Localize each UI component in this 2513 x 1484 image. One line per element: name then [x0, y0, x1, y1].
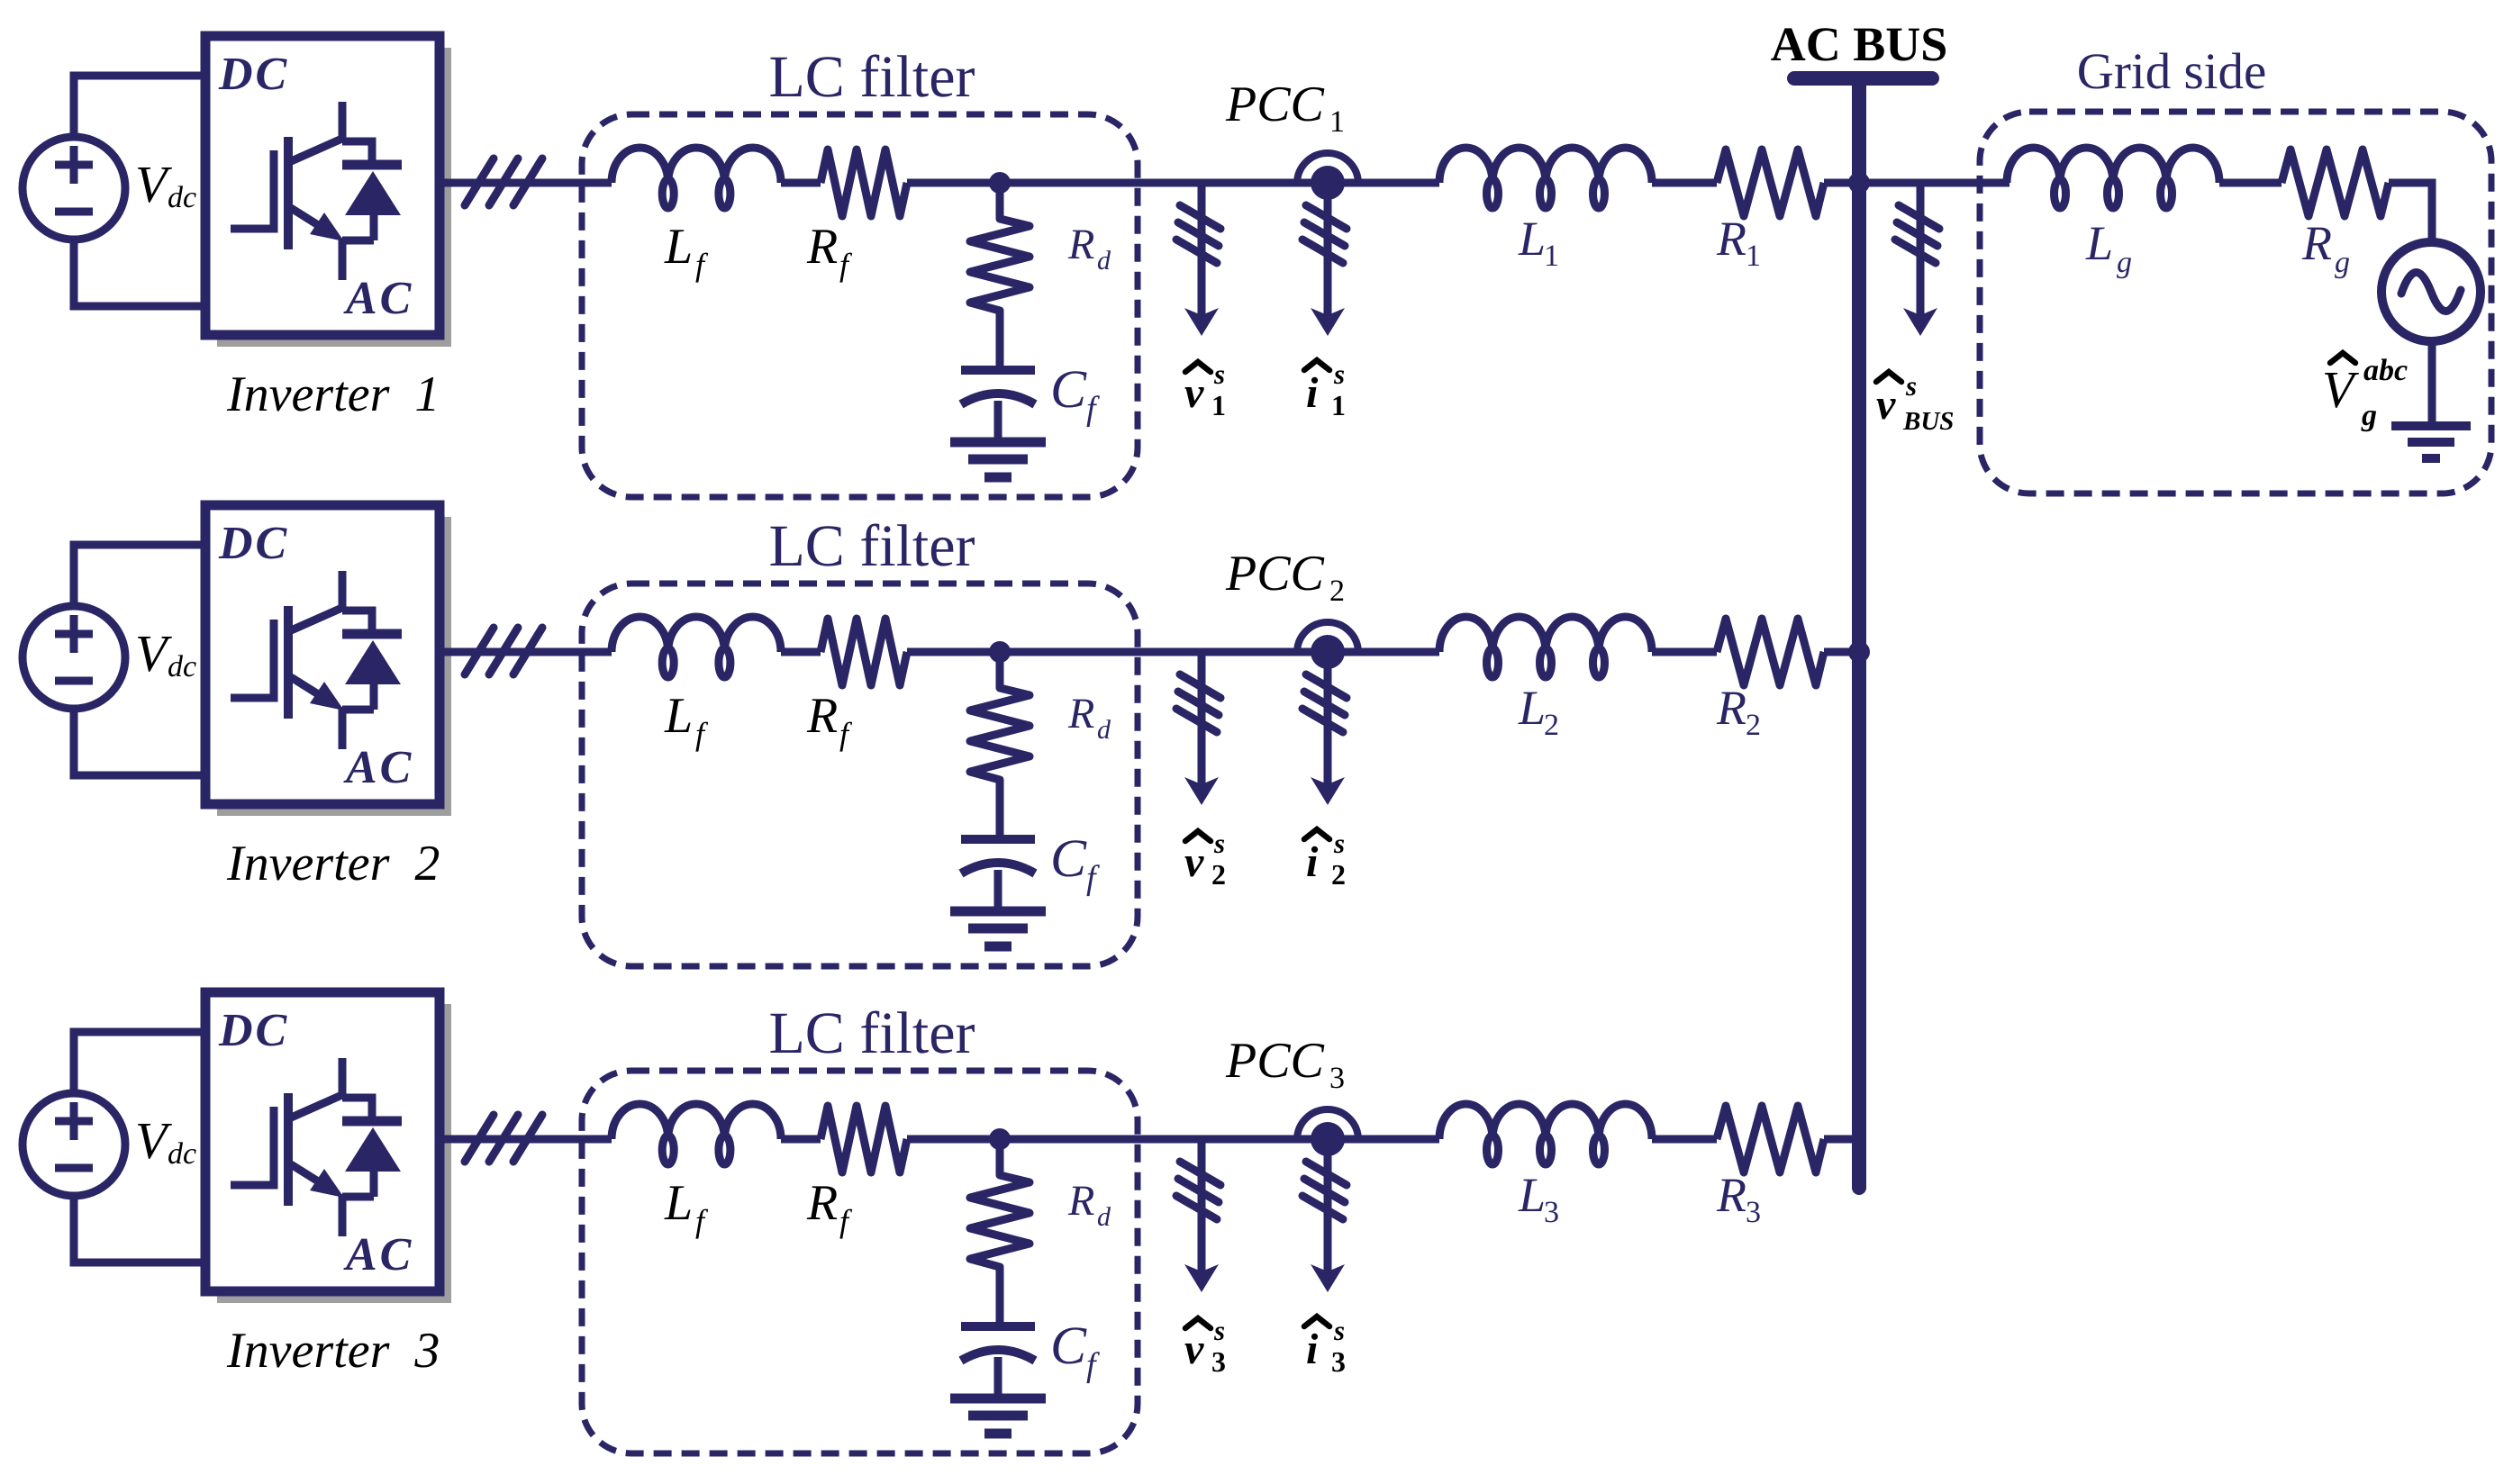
svg-text:LC filter: LC filter [768, 1000, 975, 1066]
svg-text:R: R [806, 1175, 838, 1231]
inverter 3 box [205, 992, 440, 1291]
wire: AC output of inverter 3 [440, 1136, 612, 1144]
svg-text:v: v [1876, 381, 1896, 429]
inductor Lf (row 2) [612, 617, 781, 677]
wire: DC link bottom, inverter 2 [74, 709, 205, 775]
wire: AC output of inverter 1 [440, 179, 612, 187]
svg-text:BUS: BUS [1902, 407, 1954, 436]
svg-text:AC: AC [343, 1229, 413, 1280]
svg-text:3: 3 [1329, 1062, 1345, 1095]
capacitor Cf (row 2) [961, 839, 1035, 912]
label R_d (row 1) [1067, 221, 1111, 276]
wire: DC link bottom, inverter 1 [74, 240, 205, 306]
label i2^s [1304, 828, 1346, 891]
label PCC_1 [1225, 77, 1345, 139]
junction dot bus row 2 [1848, 641, 1870, 663]
svg-text:R: R [1067, 1177, 1094, 1225]
label R_3 [1716, 1168, 1761, 1229]
three-phase slash marks (row 1) [465, 158, 542, 205]
ground (LC filter row 2) [950, 911, 1046, 946]
dc source V_dc (row 1) [23, 137, 125, 240]
svg-text:DC: DC [218, 518, 289, 569]
transistor Q2 (IGBT with diode) [231, 571, 402, 749]
svg-text:AC: AC [343, 742, 413, 793]
svg-text:Inverter 2: Inverter 2 [226, 836, 440, 891]
svg-text:R: R [1716, 1168, 1746, 1222]
svg-text:L: L [2085, 216, 2113, 270]
svg-text:L: L [1518, 681, 1546, 735]
label R_1 [1716, 212, 1761, 273]
inverter 2 box shadow [217, 517, 451, 816]
svg-text:s: s [1333, 1315, 1345, 1346]
resistor Rd (row 2) [970, 652, 1030, 839]
inverter 1 box [205, 36, 440, 335]
svg-text:LC filter: LC filter [768, 513, 975, 579]
AC BUS vertical line [1852, 78, 1866, 1188]
AC BUS top bar [1794, 71, 1932, 86]
junction node dot (row 1) [989, 172, 1011, 194]
LC filter dashed box (row 1) [582, 114, 1138, 497]
svg-text:dc: dc [168, 181, 196, 214]
ground (grid side) [2391, 426, 2471, 458]
junction node dot (row 3) [989, 1128, 1011, 1150]
ground (LC filter row 1) [950, 442, 1046, 477]
wire: Lf to Rf (row 3) [781, 1136, 821, 1144]
dc source V_dc (row 2) [23, 606, 125, 709]
svg-text:g: g [2117, 246, 2132, 279]
svg-text:s: s [1905, 370, 1917, 402]
svg-text:R: R [1067, 690, 1094, 737]
svg-text:v: v [1184, 1326, 1204, 1373]
label i3^s [1304, 1315, 1346, 1378]
wire: Rf to PCC to L3 (row 3) [907, 1136, 1439, 1144]
ground (LC filter row 3) [950, 1398, 1046, 1434]
label R_2 [1716, 681, 1761, 742]
svg-text:AC: AC [343, 273, 413, 324]
wire: DC link bottom, inverter 3 [74, 1196, 205, 1262]
wire: R3 to AC bus [1824, 1136, 1859, 1144]
wire: Rf to PCC to L2 (row 2) [907, 648, 1439, 656]
svg-text:C: C [1050, 1316, 1087, 1375]
svg-text:v: v [1184, 369, 1204, 417]
svg-text:C: C [1050, 359, 1087, 419]
svg-text:s: s [1333, 828, 1345, 859]
transistor Q1 (IGBT with diode) [231, 102, 402, 280]
label L_2 [1518, 681, 1559, 742]
svg-text:R: R [1067, 221, 1094, 268]
wire: AC output of inverter 2 [440, 648, 612, 656]
svg-text:i: i [1306, 369, 1319, 417]
LC filter dashed box (row 3) [582, 1071, 1138, 1453]
svg-text:AC BUS: AC BUS [1771, 17, 1948, 71]
svg-text:L: L [664, 219, 693, 275]
probe i1 (current measurement) [1302, 183, 1347, 336]
wire: source to ground [2428, 344, 2436, 426]
svg-text:Inverter 3: Inverter 3 [226, 1323, 440, 1379]
label R_f (row 2) [806, 688, 853, 752]
svg-text:v: v [1184, 838, 1204, 886]
dc source V_dc (row 3) [23, 1093, 125, 1196]
svg-text:R: R [806, 688, 838, 744]
inductor L2 [1439, 617, 1652, 677]
probe i3 (current measurement) [1302, 1139, 1347, 1292]
inverter 1 box shadow [217, 48, 451, 347]
svg-text:R: R [2301, 216, 2332, 270]
svg-text:dc: dc [168, 1137, 196, 1171]
wire: R2 to AC bus [1824, 648, 1859, 656]
svg-text:R: R [1716, 212, 1746, 266]
svg-text:L: L [664, 688, 693, 744]
label v2^s [1184, 828, 1226, 891]
svg-text:2: 2 [1746, 709, 1761, 742]
PCC node (row 3) [1297, 1109, 1358, 1156]
svg-text:3: 3 [1746, 1196, 1761, 1229]
svg-text:d: d [1097, 246, 1111, 276]
label v1^s [1184, 358, 1226, 421]
probe v1 (voltage measurement) [1176, 183, 1220, 336]
svg-text:Grid side: Grid side [2077, 43, 2267, 100]
probe v3 (voltage measurement) [1176, 1139, 1220, 1292]
svg-text:g: g [2335, 246, 2350, 279]
label R_d (row 3) [1067, 1177, 1111, 1232]
svg-text:2: 2 [1331, 858, 1346, 891]
resistor R1 [1717, 149, 1824, 216]
label R_f (row 3) [806, 1175, 853, 1239]
label L_1 [1518, 212, 1559, 273]
PCC node (row 1) [1297, 153, 1358, 200]
svg-text:1: 1 [1746, 240, 1761, 273]
svg-text:3: 3 [1331, 1345, 1346, 1378]
svg-text:abc: abc [2363, 354, 2408, 387]
transistor Q3 (IGBT with diode) [231, 1058, 402, 1236]
svg-text:R: R [1716, 681, 1746, 735]
inductor Lg [2007, 148, 2219, 208]
inverter 2 box [205, 505, 440, 804]
PCC node (row 2) [1297, 622, 1358, 669]
resistor Rg [2282, 149, 2389, 216]
svg-text:s: s [1213, 358, 1225, 390]
inductor L3 [1439, 1104, 1652, 1164]
wire: DC link top, inverter 2 [74, 545, 205, 606]
wire: L2 to R2 [1652, 648, 1717, 656]
three-phase slash marks (row 3) [465, 1115, 542, 1162]
svg-text:PCC: PCC [1225, 1033, 1325, 1089]
wire: DC link top, inverter 3 [74, 1032, 205, 1093]
svg-text:d: d [1097, 1202, 1111, 1232]
Grid side dashed box [1980, 112, 2491, 493]
resistor R2 [1717, 619, 1824, 685]
junction node dot (row 2) [989, 641, 1011, 663]
svg-text:1: 1 [1544, 240, 1559, 273]
svg-text:1: 1 [1331, 389, 1346, 421]
svg-text:s: s [1213, 1315, 1225, 1346]
label L_3 [1518, 1168, 1559, 1229]
probe v2 (voltage measurement) [1176, 652, 1220, 805]
capacitor Cf (row 3) [961, 1326, 1035, 1399]
svg-text:i: i [1306, 1326, 1319, 1373]
svg-text:d: d [1097, 715, 1111, 745]
wire: R1 to grid side [1824, 179, 2009, 187]
resistor Rd (row 3) [970, 1139, 1030, 1326]
wire: L1 to R1 [1652, 179, 1717, 187]
capacitor Cf (row 1) [961, 370, 1035, 443]
label vBUS^s [1876, 370, 1954, 436]
label C_f (row 1) [1050, 359, 1100, 428]
svg-text:C: C [1050, 828, 1087, 888]
svg-text:2: 2 [1544, 709, 1559, 742]
ac grid source [2381, 242, 2481, 341]
svg-text:L: L [664, 1175, 693, 1231]
svg-text:PCC: PCC [1225, 546, 1325, 602]
inductor Lf (row 1) [612, 148, 781, 208]
svg-text:L: L [1518, 212, 1546, 266]
label PCC_3 [1225, 1033, 1345, 1095]
label R_f (row 1) [806, 219, 853, 283]
inverter 3 box shadow [217, 1004, 451, 1303]
label v3^s [1184, 1315, 1226, 1378]
svg-text:PCC: PCC [1225, 77, 1325, 132]
wire: L3 to R3 [1652, 1136, 1717, 1144]
inductor L1 [1439, 148, 1652, 208]
svg-text:i: i [1306, 838, 1319, 886]
label PCC_2 [1225, 546, 1345, 608]
wire: Lf to Rf (row 2) [781, 648, 821, 656]
label C_f (row 3) [1050, 1316, 1100, 1384]
label V_dc (row 2) [135, 624, 196, 683]
svg-text:dc: dc [168, 650, 196, 683]
svg-text:1: 1 [1329, 105, 1345, 139]
svg-text:DC: DC [218, 1005, 289, 1056]
svg-text:R: R [806, 219, 838, 275]
LC filter dashed box (row 2) [582, 584, 1138, 966]
wire: Lf to Rf (row 1) [781, 179, 821, 187]
wire: Rf to PCC to L1 (row 1) [907, 179, 1439, 187]
resistor Rf (row 3) [821, 1106, 907, 1172]
junction dot bus row 1 [1848, 172, 1870, 194]
label i1^s [1304, 358, 1346, 421]
label V_g^abc [2322, 353, 2408, 432]
label L_g [2085, 216, 2132, 279]
label V_dc (row 1) [135, 155, 196, 214]
resistor Rd (row 1) [970, 183, 1030, 370]
label L_f (row 2) [664, 688, 709, 752]
svg-text:3: 3 [1544, 1196, 1559, 1229]
label L_f (row 1) [664, 219, 709, 283]
svg-text:s: s [1333, 358, 1345, 390]
svg-text:L: L [1518, 1168, 1546, 1222]
svg-text:3: 3 [1211, 1345, 1226, 1378]
label V_dc (row 3) [135, 1111, 196, 1171]
svg-text:1: 1 [1211, 389, 1226, 421]
probe i2 (current measurement) [1302, 652, 1347, 805]
svg-text:DC: DC [218, 49, 289, 100]
wire: Lg to Rg [2219, 179, 2282, 187]
three-phase slash marks (row 2) [465, 628, 542, 674]
resistor Rf (row 2) [821, 619, 907, 685]
inductor Lf (row 3) [612, 1104, 781, 1164]
resistor R3 [1717, 1106, 1824, 1172]
svg-text:Inverter 1: Inverter 1 [226, 366, 440, 422]
svg-text:LC filter: LC filter [768, 44, 975, 110]
svg-text:g: g [2361, 399, 2377, 432]
wire: Rg to grid source [2389, 183, 2432, 240]
label L_f (row 3) [664, 1175, 709, 1239]
label R_d (row 2) [1067, 690, 1111, 745]
label C_f (row 2) [1050, 828, 1100, 897]
svg-text:2: 2 [1211, 858, 1226, 891]
wire: DC link top, inverter 1 [74, 76, 205, 137]
resistor Rf (row 1) [821, 149, 907, 216]
label R_g [2301, 216, 2350, 279]
svg-text:2: 2 [1329, 575, 1345, 608]
probe vBUS [1895, 183, 1939, 336]
svg-text:s: s [1213, 828, 1225, 859]
